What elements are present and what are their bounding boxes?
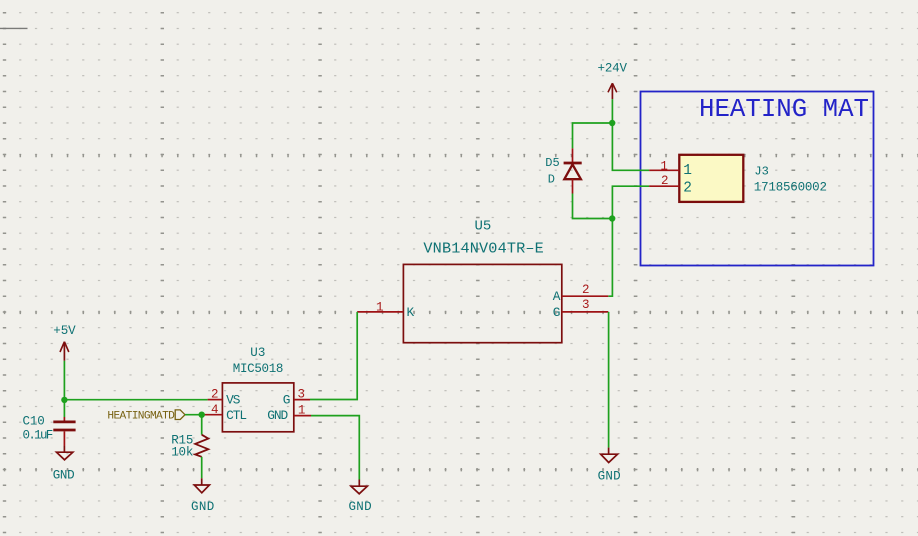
svg-text:K: K bbox=[407, 305, 415, 320]
svg-text:2: 2 bbox=[211, 388, 219, 402]
MOSFET U5 body bbox=[403, 264, 561, 342]
wire +24V to junction bbox=[611, 99, 613, 123]
wire J3 pin 2 left and down to junction 2 bbox=[612, 186, 649, 218]
pin 3 G of U3 bbox=[294, 399, 310, 401]
power +24V bbox=[598, 62, 628, 100]
svg-text:1: 1 bbox=[660, 160, 668, 174]
svg-text:1: 1 bbox=[298, 403, 306, 417]
wire junction1 down and right to J3 pin 1 bbox=[612, 123, 649, 170]
wire junction to R15 bbox=[201, 415, 203, 435]
power +5V bbox=[53, 324, 76, 361]
ground symbol below R15 bbox=[194, 478, 209, 493]
reference C10 bbox=[23, 415, 45, 429]
svg-text:VNB14NV04TR–E: VNB14NV04TR–E bbox=[423, 239, 543, 257]
sheet name HEATING MAT bbox=[699, 95, 869, 124]
pin 4 CTL of U3 bbox=[204, 414, 222, 416]
pin number 2 (U3) bbox=[211, 388, 219, 402]
pin number 2 (J3) bbox=[661, 174, 669, 188]
pin name VS (U3) bbox=[226, 393, 241, 408]
junction node at C10 bbox=[61, 397, 67, 403]
pin 1 GND of U3 bbox=[294, 415, 311, 417]
value MIC5018 bbox=[233, 362, 284, 376]
wire junction to diode top bbox=[573, 123, 613, 148]
wire junction 2 down to U5 pin A bbox=[608, 219, 612, 297]
pin 2 VS of U3 bbox=[208, 399, 223, 401]
svg-text:+24V: +24V bbox=[598, 62, 628, 76]
reference U5 bbox=[475, 219, 492, 235]
value 1718560002 bbox=[754, 181, 827, 195]
svg-text:HEATING MAT: HEATING MAT bbox=[699, 95, 869, 124]
pin name G (U3) bbox=[283, 393, 291, 408]
value D bbox=[548, 173, 555, 187]
pin 2 of J3 bbox=[649, 185, 679, 187]
svg-text:A: A bbox=[553, 289, 561, 304]
pin 3 G of U5 bbox=[562, 311, 609, 313]
svg-text:J3: J3 bbox=[754, 164, 768, 178]
pin name K (U5) bbox=[407, 305, 415, 320]
ground symbol below C10 bbox=[57, 446, 73, 460]
wire diode bottom to junction 2 bbox=[573, 194, 613, 219]
svg-text:GND: GND bbox=[349, 500, 372, 514]
pin 1 K of U5 bbox=[357, 311, 403, 313]
junction node at diode bottom bbox=[609, 215, 615, 221]
pin name GND (U3) bbox=[267, 408, 288, 423]
net label HEATINGMATD bbox=[107, 410, 185, 422]
reference D5 bbox=[545, 156, 559, 170]
GND label below C10 bbox=[53, 468, 75, 482]
wire U5 K pin to U3 G pin bbox=[310, 312, 357, 400]
wire U5 G pin down to GND bbox=[608, 312, 610, 448]
svg-text:GND: GND bbox=[598, 470, 621, 484]
svg-text:1718560002: 1718560002 bbox=[754, 181, 827, 195]
GND label below R15 bbox=[191, 500, 214, 514]
capacitor C10 bbox=[53, 417, 75, 446]
reference R15 bbox=[171, 434, 193, 448]
pin name G (U5) bbox=[553, 305, 561, 320]
GND label below U5 G bbox=[598, 470, 621, 484]
svg-text:3: 3 bbox=[582, 298, 590, 312]
svg-text:D5: D5 bbox=[545, 156, 559, 170]
sheet HEATING MAT bbox=[641, 92, 874, 266]
svg-text:+5V: +5V bbox=[53, 324, 76, 338]
connector J3 body bbox=[679, 155, 743, 202]
wire label to CTL junction bbox=[185, 414, 204, 416]
value VNB14NV04TR-E bbox=[423, 239, 543, 257]
ground symbol below U3 bbox=[351, 480, 367, 494]
svg-text:1: 1 bbox=[683, 163, 692, 179]
svg-text:2: 2 bbox=[683, 180, 692, 196]
svg-text:G: G bbox=[283, 393, 291, 408]
pin number 3 (U3) bbox=[298, 388, 306, 402]
pin name 1 (J3) bbox=[683, 163, 692, 179]
reference J3 bbox=[754, 164, 768, 178]
reference U3 bbox=[250, 346, 265, 360]
wire U3 GND pin to ground bbox=[311, 416, 359, 480]
ground symbol below U5 G bbox=[601, 448, 618, 463]
svg-text:D: D bbox=[548, 173, 555, 187]
svg-text:G: G bbox=[553, 305, 561, 320]
wire R15 to ground bbox=[201, 457, 203, 479]
svg-text:VS: VS bbox=[226, 393, 241, 408]
wire +5V to junction bbox=[63, 361, 65, 401]
GND label below U3 bbox=[349, 500, 372, 514]
svg-text:C10: C10 bbox=[23, 415, 45, 429]
svg-text:1: 1 bbox=[376, 300, 384, 314]
value 0.1uF bbox=[23, 429, 54, 443]
svg-text:4: 4 bbox=[211, 403, 219, 417]
resistor R15 bbox=[195, 435, 208, 457]
svg-text:GND: GND bbox=[53, 468, 75, 482]
junction node at +24V branch bbox=[609, 120, 615, 126]
pin name A (U5) bbox=[553, 289, 561, 304]
svg-text:GND: GND bbox=[267, 408, 288, 423]
partial sheet border line top-left bbox=[0, 27, 28, 29]
driver U3 body bbox=[222, 383, 293, 432]
svg-text:GND: GND bbox=[191, 500, 214, 514]
wire junction to C10 bbox=[63, 401, 65, 418]
junction node at CTL bbox=[199, 412, 205, 418]
svg-text:U3: U3 bbox=[250, 346, 265, 360]
svg-text:HEATINGMATD: HEATINGMATD bbox=[107, 410, 175, 422]
pin number 4 (U3) bbox=[211, 403, 219, 417]
pin number 2 (U5) bbox=[582, 283, 590, 297]
pin name CTL (U3) bbox=[226, 408, 247, 423]
pin 1 of J3 bbox=[649, 169, 679, 171]
svg-text:U5: U5 bbox=[475, 219, 492, 235]
pin name 2 (J3) bbox=[683, 180, 692, 196]
svg-text:0.1uF: 0.1uF bbox=[23, 429, 54, 443]
pin number 1 (J3) bbox=[660, 160, 668, 174]
value 10k bbox=[171, 446, 193, 460]
svg-text:MIC5018: MIC5018 bbox=[233, 362, 284, 376]
pin number 1 (U5) bbox=[376, 300, 384, 314]
pin number 1 (U3) bbox=[298, 403, 306, 417]
diode D5 bbox=[564, 148, 582, 193]
svg-text:2: 2 bbox=[582, 283, 590, 297]
svg-text:10k: 10k bbox=[171, 446, 193, 460]
pin 2 A of U5 bbox=[562, 295, 609, 297]
svg-text:3: 3 bbox=[298, 388, 306, 402]
svg-text:2: 2 bbox=[661, 174, 669, 188]
pin number 3 (U5) bbox=[582, 298, 590, 312]
wire junction to U3 VS pin bbox=[64, 399, 207, 401]
svg-text:CTL: CTL bbox=[226, 408, 247, 423]
